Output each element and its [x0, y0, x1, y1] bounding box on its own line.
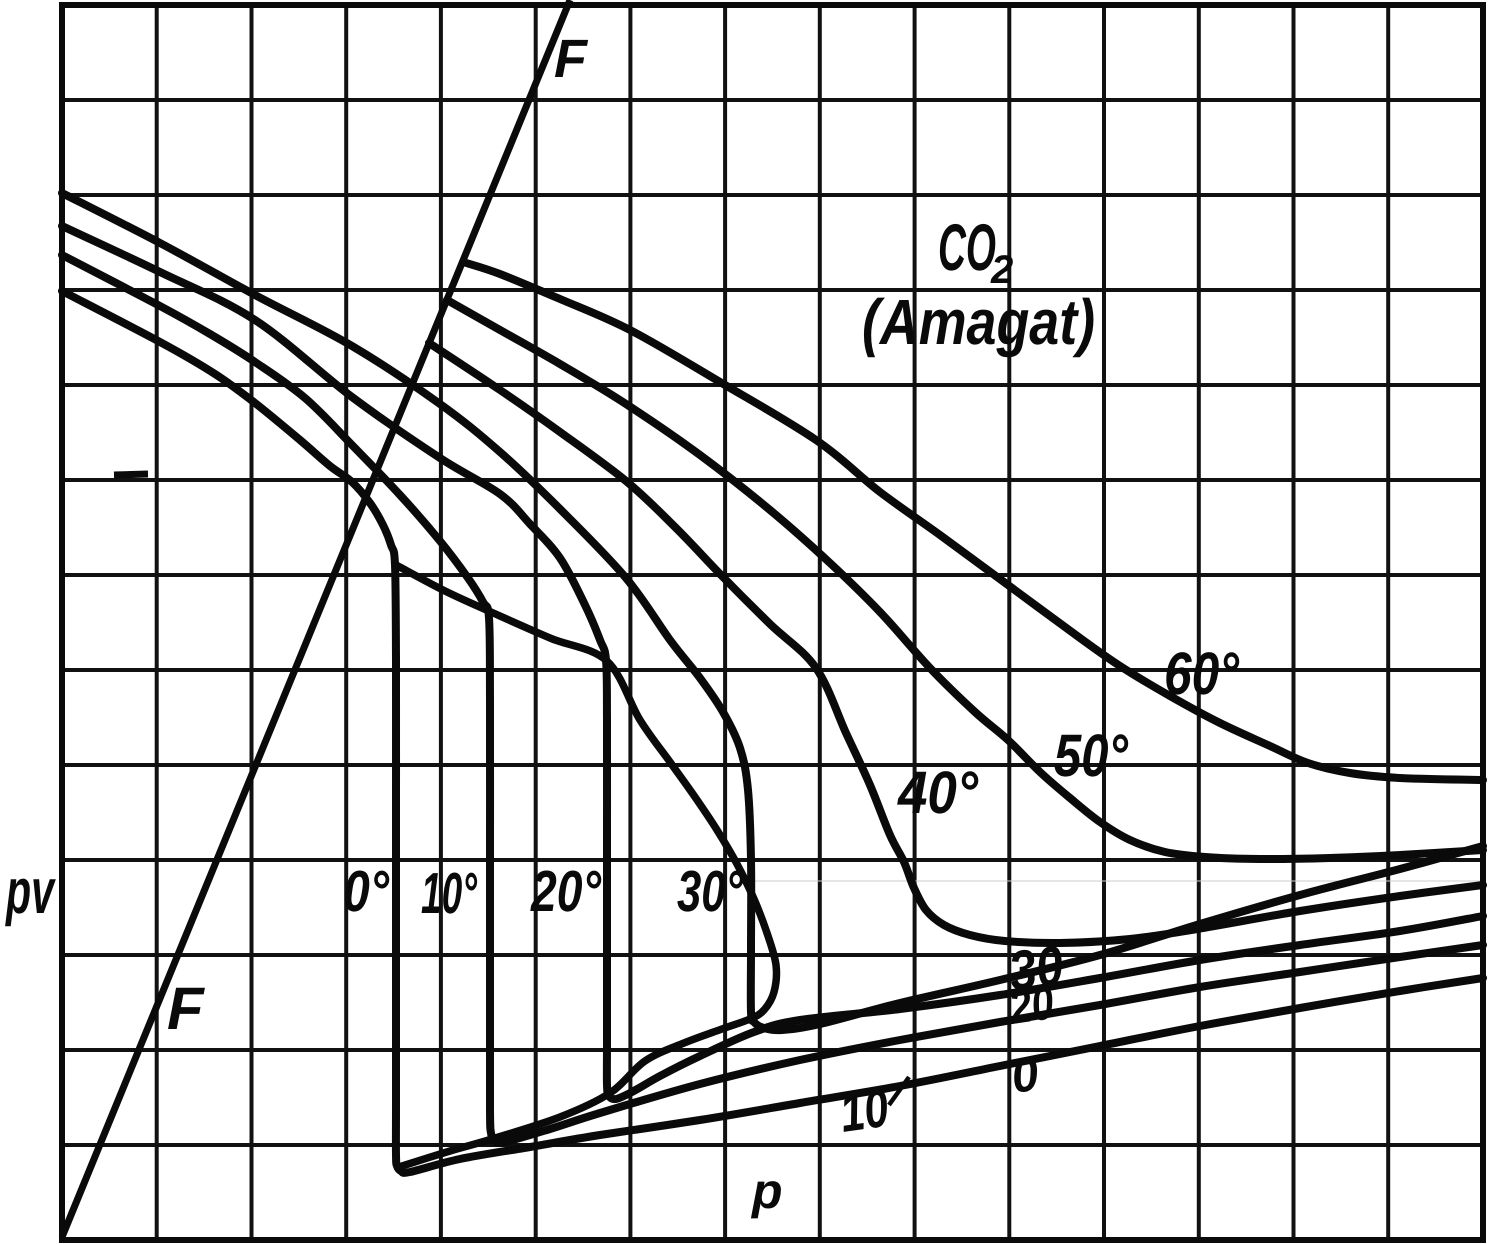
svg-text:CO: CO	[938, 210, 996, 284]
isotherm 60 deg	[463, 262, 1483, 780]
svg-text:(Amagat): (Amagat)	[862, 286, 1095, 358]
svg-text:10°: 10°	[421, 861, 478, 926]
svg-text:pv: pv	[5, 855, 56, 927]
svg-text:30°: 30°	[677, 859, 744, 924]
svg-text:F: F	[167, 975, 205, 1042]
line FF	[62, 0, 570, 1237]
svg-text:p: p	[750, 1163, 783, 1219]
isotherm 20 deg with vertical drop and liquid branch	[62, 226, 1483, 1099]
svg-text:20°: 20°	[530, 859, 601, 924]
isotherm 40 deg	[429, 343, 1483, 943]
isotherm 0 deg with vertical drop and liquid branch	[62, 291, 1483, 1173]
isotherm 50 deg	[447, 300, 1483, 859]
svg-text:0°: 0°	[343, 859, 390, 924]
tick dash on left border area	[114, 474, 148, 475]
isotherm 10 deg with vertical drop and liquid branch	[62, 255, 1483, 1143]
svg-text:60°: 60°	[1164, 640, 1240, 707]
isotherm 30 deg with near-critical drop and liquid branch	[62, 193, 1483, 1030]
faint scan line	[744, 880, 1480, 882]
svg-text:40°: 40°	[897, 759, 979, 826]
svg-text:10: 10	[836, 1078, 892, 1144]
svg-text:20: 20	[1005, 976, 1057, 1035]
tick arrow for label 10	[889, 1077, 909, 1105]
svg-text:50°: 50°	[1054, 722, 1129, 789]
svg-text:F: F	[554, 29, 589, 89]
saturation dome boundary	[396, 565, 776, 1167]
